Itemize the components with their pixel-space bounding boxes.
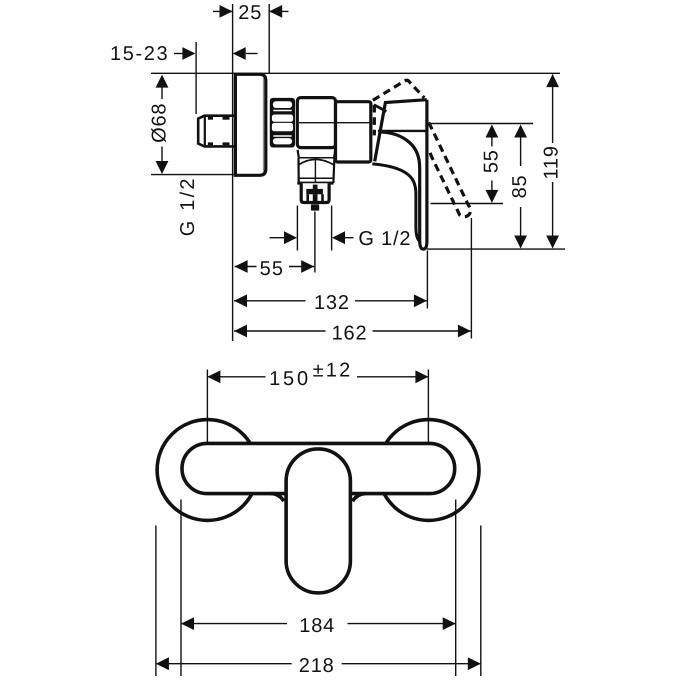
- svg-text:55: 55: [260, 258, 285, 280]
- svg-text:±12: ±12: [313, 359, 353, 381]
- svg-text:25: 25: [238, 2, 262, 24]
- svg-text:218: 218: [299, 655, 335, 677]
- svg-text:184: 184: [299, 615, 335, 637]
- svg-text:150: 150: [269, 368, 311, 390]
- svg-text:Ø68: Ø68: [149, 103, 171, 143]
- svg-text:85: 85: [509, 175, 531, 199]
- svg-text:162: 162: [332, 322, 368, 344]
- svg-text:G 1/2: G 1/2: [177, 176, 199, 236]
- svg-text:119: 119: [541, 145, 563, 179]
- svg-text:132: 132: [314, 292, 350, 314]
- svg-text:G 1/2: G 1/2: [358, 228, 411, 250]
- svg-text:55: 55: [481, 149, 503, 173]
- svg-text:15-23: 15-23: [110, 43, 169, 65]
